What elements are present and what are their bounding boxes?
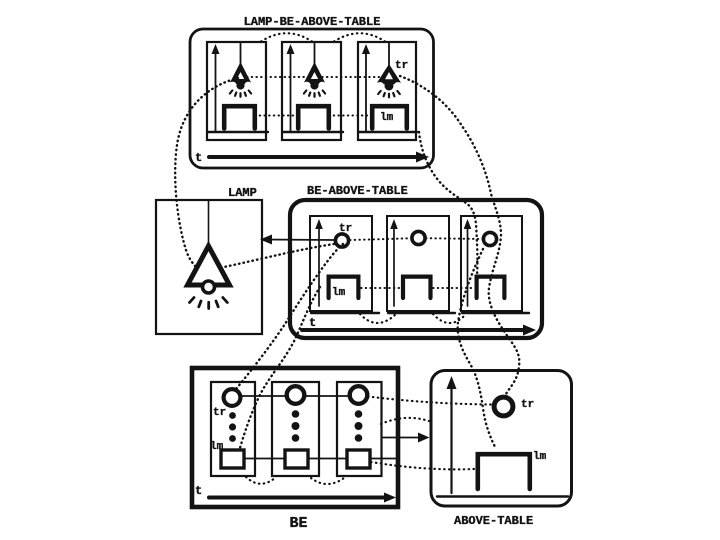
up axis arrow state3 (top): [365, 50, 367, 131]
lamp icon state1 (top): [230, 62, 251, 97]
lamp icon state3 (top): [377, 64, 401, 97]
svg-text:t: t: [309, 316, 316, 330]
state box 1 (BE): [211, 382, 255, 476]
dotted link BE lm3 to ABOVE-TABLE table: [371, 462, 474, 469]
ground line state1 (top): [208, 131, 268, 133]
table icon state2 (middle): [403, 277, 431, 298]
tr circle (ABOVE-TABLE): [494, 397, 513, 416]
solid arrow BE state3 to ABOVE-TABLE: [382, 437, 421, 439]
svg-text:tr: tr: [339, 223, 352, 235]
tr circle state1 (BE): [224, 389, 241, 406]
state box 1 (middle): [310, 216, 372, 311]
ellipsis dots state3 (BE): [355, 410, 363, 418]
svg-text:tr: tr: [213, 407, 226, 419]
tr circle state3 (BE): [350, 386, 368, 404]
dotted smile arc states2-3 (BE): [311, 478, 344, 484]
svg-text:LAMP-BE-ABOVE-TABLE: LAMP-BE-ABOVE-TABLE: [244, 15, 381, 29]
table icon state1 (top): [224, 106, 255, 128]
state box 3 (top): [358, 42, 416, 140]
state box 3 (BE): [337, 382, 382, 476]
dotted link middle tr1 to BE tr1: [236, 244, 343, 389]
table icon state2 (top): [298, 106, 329, 128]
lamp pendant wire state1 (top): [240, 43, 242, 64]
lamp pendant wire (LAMP box): [208, 201, 210, 250]
svg-text:lm: lm: [380, 112, 394, 124]
up axis arrow state3 (middle): [467, 225, 469, 306]
dotted link BE tr3 to ABOVE-TABLE tr: [368, 397, 491, 405]
tr circle state3 (middle): [483, 232, 496, 245]
time arrow (middle): [302, 328, 526, 332]
state box 3 (middle): [461, 216, 522, 311]
table icon state3 (middle): [477, 277, 505, 298]
dotted arc above arrow (BE to ABOVE-TABLE): [381, 418, 429, 424]
svg-text:lm: lm: [332, 287, 346, 299]
ground line state2 (top): [283, 131, 343, 133]
state box 2 (BE): [272, 382, 319, 476]
ground line state3 (middle): [462, 312, 529, 314]
svg-text:tr: tr: [395, 60, 408, 72]
frame LAMP-BE-ABOVE-TABLE box: [190, 29, 434, 168]
ground line state3 (top): [359, 131, 417, 133]
dotted smile arc states2-3 (middle): [433, 314, 466, 323]
dotted identity line between lamps (top): [247, 76, 383, 78]
table icon state1 (middle): [329, 277, 359, 298]
dotted arc top lm3 to middle table3: [419, 132, 477, 276]
lamp icon state2 (top): [304, 62, 325, 97]
svg-text:BE: BE: [289, 515, 307, 532]
frame ABOVE-TABLE box: [431, 371, 572, 507]
ellipsis dots state1 (BE): [229, 412, 236, 419]
time arrow (top): [209, 155, 419, 159]
ground line (ABOVE-TABLE): [437, 495, 568, 497]
tr circle state1 (middle): [335, 234, 348, 247]
state box 1 (top): [207, 42, 266, 140]
lm square state2 (BE): [285, 450, 308, 468]
tr circle state2 (middle): [412, 231, 425, 244]
time arrow (BE): [209, 496, 387, 500]
lamp pendant wire state3 (top): [388, 43, 390, 66]
big dotted arc top lamp1 to LAMP icon: [175, 78, 238, 268]
identity line through lm squares (BE): [244, 458, 396, 460]
state box 2 (middle): [387, 216, 449, 311]
big lamp icon (LAMP box): [188, 246, 230, 309]
dotted link middle lm1 to BE lm1: [240, 287, 320, 448]
table icon (ABOVE-TABLE): [478, 454, 530, 489]
lm square state1 (BE): [221, 450, 244, 468]
big dotted arc top tr3 to ABOVE-TABLE tr (right): [400, 76, 519, 394]
dotted identity line tables 1-2 (top): [255, 115, 298, 117]
dotted identity line tables 2-3 (middle): [433, 287, 474, 289]
up axis arrow (ABOVE-TABLE): [450, 383, 452, 493]
dotted identity line tables 1-2 (middle): [361, 287, 400, 289]
svg-text:lm: lm: [533, 451, 547, 463]
ground line state2 (middle): [388, 312, 455, 314]
ground line state1 (middle): [311, 312, 379, 314]
svg-text:ABOVE-TABLE: ABOVE-TABLE: [454, 514, 533, 528]
identity line through tr circles + arrow to LAMP: [262, 239, 336, 242]
up axis arrow state1 (top): [215, 50, 217, 131]
lm square state3 (BE): [347, 450, 370, 468]
frame BE-ABOVE-TABLE box (thick): [290, 200, 542, 338]
svg-text:BE-ABOVE-TABLE: BE-ABOVE-TABLE: [307, 184, 408, 198]
dotted arc middle tr3 to ABOVE-TABLE tr: [458, 249, 496, 449]
tr circle state2 (BE): [287, 386, 305, 404]
lamp pendant wire state2 (top): [314, 43, 316, 64]
frame LAMP box: [156, 200, 262, 334]
dotted arc linking state1-state2 tops: [261, 33, 312, 41]
up axis arrow state1 (middle): [318, 225, 320, 306]
dotted arc linking state2-state3 tops: [334, 33, 385, 41]
svg-text:tr: tr: [521, 399, 534, 411]
dotted smile arc states1-2 (BE): [246, 477, 275, 484]
table icon state3 (top): [372, 106, 407, 128]
dotted link LAMP icon to middle tr1: [224, 244, 334, 267]
svg-text:LAMP: LAMP: [228, 186, 257, 200]
identity line through tr circles (BE): [232, 395, 358, 397]
ellipsis dots state2 (BE): [292, 410, 300, 418]
state box 2 (top): [282, 42, 341, 140]
svg-text:t: t: [195, 151, 202, 165]
up axis arrow state2 (middle): [393, 225, 395, 306]
up axis arrow state2 (top): [290, 50, 292, 131]
svg-text:t: t: [195, 484, 202, 498]
dotted smile arc states1-2 (middle): [360, 314, 396, 323]
frame BE box (thick): [192, 368, 398, 507]
dotted identity line tables 2-3 (top): [329, 115, 372, 117]
